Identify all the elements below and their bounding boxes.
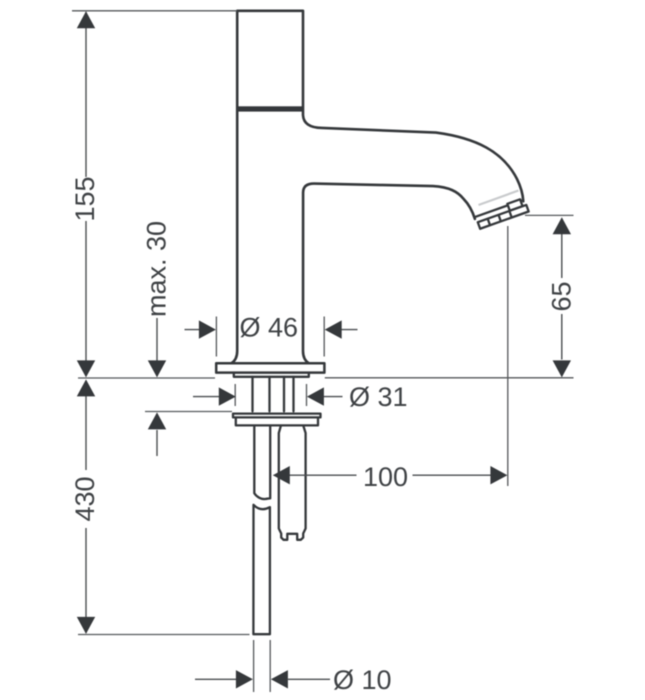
svg-text:430: 430 — [70, 476, 100, 521]
svg-text:Ø 46: Ø 46 — [240, 313, 299, 343]
svg-text:max. 30: max. 30 — [141, 221, 171, 317]
svg-text:Ø 10: Ø 10 — [333, 665, 392, 695]
svg-text:100: 100 — [363, 462, 408, 492]
svg-text:155: 155 — [70, 176, 100, 221]
svg-text:65: 65 — [546, 281, 576, 311]
svg-text:Ø 31: Ø 31 — [349, 382, 408, 412]
